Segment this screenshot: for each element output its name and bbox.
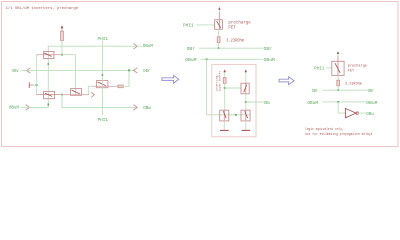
- power VDD arrow precharge right: [337, 54, 339, 57]
- junction dot OBuM tap: [206, 58, 208, 60]
- panel arrow 1: [162, 75, 179, 83]
- border frame: [2, 2, 399, 147]
- power VDD arrow buffer 1: [224, 73, 226, 78]
- node dot gate bottom: [48, 104, 50, 106]
- svg-text:OBv: OBv: [12, 69, 19, 74]
- transistor Q5 box: [220, 110, 229, 121]
- wire box to resistor: [218, 29, 220, 36]
- junction dot on PHI1 vertical: [102, 74, 104, 76]
- svg-text:super buffer: super buffer: [217, 70, 221, 91]
- transistor Q6 box: [241, 83, 249, 94]
- svg-text:OBr: OBr: [312, 89, 318, 94]
- transistor Q2 box: [44, 91, 55, 98]
- ground 1: [221, 129, 229, 131]
- transistor Q3 switch arm: [72, 90, 79, 93]
- junction dot on OBw right: [337, 89, 339, 91]
- transistor Q5 channel: [223, 110, 225, 121]
- svg-text:precharge: precharge: [348, 64, 368, 69]
- wire OBw right panel: [322, 89, 367, 91]
- svg-text:OBuM: OBuM: [185, 58, 197, 63]
- wire resistor to OBw right: [337, 86, 339, 91]
- transistor Q3 box: [70, 89, 81, 96]
- junction dot on OBF wire: [128, 69, 130, 71]
- wire OBuM right panel: [323, 101, 366, 103]
- svg-text:FET: FET: [348, 69, 355, 73]
- inverter U1 triangle: [345, 108, 356, 117]
- svg-text:PHI1: PHI1: [314, 67, 325, 72]
- inverter U1 bubble: [356, 112, 358, 114]
- transistor Q4 box: [97, 80, 108, 87]
- wire box to resistor right: [337, 75, 339, 80]
- port chevron OBF: [134, 68, 138, 73]
- wire stub to OBuM label: [137, 45, 141, 47]
- transistor precharge FET switch arm: [217, 22, 221, 28]
- resistor R5: [337, 80, 340, 86]
- wire OBuM bottom-left: [21, 106, 48, 108]
- svg-text:OBuM: OBuM: [9, 106, 19, 111]
- terminal stub on left rail: [28, 83, 30, 88]
- wire inverter to OBu: [358, 112, 365, 114]
- wire PHI1 to gate right: [327, 67, 332, 69]
- svg-text:OBuM: OBuM: [264, 58, 276, 63]
- svg-text:OBuM: OBuM: [143, 44, 153, 49]
- svg-text:3.23KOhm: 3.23KOhm: [345, 82, 362, 87]
- wire Q5 to ground: [223, 121, 225, 130]
- wire Q7 to ground: [245, 121, 247, 130]
- wire OBuM mid: [201, 58, 262, 60]
- transistor Q6 channel: [245, 83, 247, 94]
- wire gate vertical: [47, 46, 49, 107]
- transistor Q3 channel line: [62, 94, 89, 96]
- wire PHI1 to gate: [197, 24, 215, 26]
- wire node D to Q6 gate: [225, 87, 242, 89]
- svg-text:FET: FET: [228, 26, 236, 30]
- svg-text:1/1 OBL/uM inverters, precharg: 1/1 OBL/uM inverters, precharge: [6, 6, 79, 11]
- wire Q6 to node E: [245, 94, 247, 110]
- node dot on gate vertical: [48, 63, 50, 65]
- transistor Q7 box: [241, 110, 250, 121]
- wire PHI1 vertical: [101, 41, 103, 115]
- transistor precharge FET box: [215, 20, 223, 30]
- panel arrow 2: [279, 77, 294, 85]
- wire node A to Q3 gate: [62, 55, 75, 96]
- svg-text:OBu: OBu: [264, 101, 271, 106]
- resistor R2 horizontal: [118, 85, 123, 88]
- svg-text:OBr: OBr: [143, 69, 150, 74]
- svg-text:PHI1: PHI1: [98, 37, 109, 42]
- svg-text:PHI1: PHI1: [98, 118, 109, 123]
- wire OBv to OBF long horizontal: [22, 69, 133, 71]
- resistor R1 pullup: [61, 31, 64, 40]
- transistor Q4 switch arm: [98, 82, 105, 85]
- transistor Q6 switch arm: [244, 85, 247, 92]
- svg-text:PHI1: PHI1: [183, 24, 194, 29]
- wire tap to inverter: [338, 102, 345, 113]
- svg-text:OBuM: OBuM: [307, 101, 318, 106]
- ground 2: [242, 129, 250, 131]
- transistor Q2 switch arm: [45, 93, 51, 96]
- wire left rail: [36, 55, 38, 95]
- junction dot lower gate: [235, 114, 237, 116]
- wire R2 to OBF net: [123, 70, 129, 86]
- svg-text:not for estimating propagation: not for estimating propagation delays: [305, 132, 373, 137]
- transistor Q1 channel line: [37, 54, 61, 56]
- transistor Q5 switch arm: [223, 112, 226, 118]
- buffer enclosure box: [212, 64, 256, 136]
- port chevron OBv input: [26, 68, 30, 73]
- wire OBuM horizontal: [48, 45, 136, 47]
- transistor precharge FET switch arm right: [335, 64, 340, 73]
- transistor precharge FET box right: [332, 61, 344, 75]
- junction dot node E: [245, 101, 247, 103]
- transistor Q7 channel: [245, 110, 247, 121]
- port chevron OBw output: [134, 105, 138, 110]
- wire R4 to node D: [224, 84, 226, 111]
- junction dot node D: [224, 87, 226, 89]
- svg-text:OBu: OBu: [366, 112, 374, 117]
- transistor Q2 channel line: [37, 94, 61, 96]
- resistor R4: [223, 78, 226, 84]
- wire elbow to Q4: [88, 86, 93, 94]
- svg-text:OBr: OBr: [368, 89, 374, 94]
- svg-text:logic equivalent only,: logic equivalent only,: [305, 127, 344, 132]
- port chevron OBuM bottom-left: [26, 105, 30, 110]
- wire OBw horizontal: [62, 106, 137, 108]
- transistor Q4 channel line: [93, 85, 118, 87]
- svg-text:OBw: OBw: [143, 106, 151, 111]
- svg-text:OBr: OBr: [264, 47, 273, 52]
- junction dot on OBw mid: [218, 47, 220, 49]
- power VDD arrow precharge: [218, 10, 220, 13]
- resistor R3: [217, 37, 220, 43]
- node A junction dot: [61, 54, 63, 56]
- wire node E to OBu out: [246, 101, 263, 103]
- wire OBw mid: [199, 47, 262, 49]
- wire lower gate line: [220, 114, 250, 116]
- power VDD arrow pullup: [61, 28, 63, 31]
- svg-text:OBr: OBr: [187, 47, 196, 52]
- transistor precharge FET channel: [218, 20, 220, 30]
- power VDD arrow buffer 2: [245, 73, 247, 84]
- wire resistor to node A: [61, 41, 63, 55]
- transistor Q1 box: [44, 51, 54, 58]
- svg-text:precharge: precharge: [228, 21, 251, 26]
- transistor Q1 switch arm: [44, 53, 51, 56]
- svg-text:OBuM: OBuM: [366, 101, 378, 106]
- arrow chevron node C: [92, 92, 95, 97]
- transistor precharge FET channel right: [337, 61, 339, 75]
- transistor Q7 switch arm: [245, 112, 248, 118]
- wire node B down to OBw: [61, 95, 63, 108]
- svg-text:3.23KOhm: 3.23KOhm: [226, 38, 244, 43]
- wire resistor to OBw: [218, 43, 220, 48]
- port chevron OBuM output: [134, 44, 138, 49]
- node B junction dot: [61, 94, 63, 96]
- wire OBuM tap down into buffer: [207, 59, 220, 115]
- junction dot OBuM tap right: [337, 101, 339, 103]
